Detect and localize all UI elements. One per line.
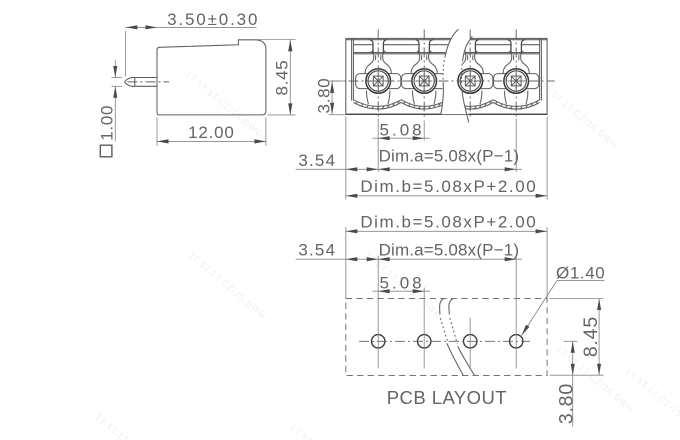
dim Dim.b (front view) [346, 195, 547, 197]
pcb rect extension lines up [345, 227, 347, 299]
dim 3.50±0.30 [124, 31, 126, 77]
extension line screw1 down [377, 119, 379, 173]
svg-text:Dim.a=5.08x(P−1): Dim.a=5.08x(P−1) [379, 146, 520, 165]
dim 8.45 (pcb) [550, 298, 604, 300]
pcb horizontal centerline [359, 340, 530, 342]
extension line screw2 down [423, 121, 425, 141]
screw rings [366, 69, 391, 94]
pcb outline (dashed) [346, 299, 547, 376]
svg-text:PCB LAYOUT: PCB LAYOUT [387, 387, 507, 408]
front view inner walls [351, 38, 353, 100]
dim 3.54 (front view) [296, 168, 373, 170]
svg-text:1T.5T.1T.CZ/25.DWG: 1T.5T.1T.CZ/25.DWG [539, 80, 621, 151]
svg-text:3.50±0.30: 3.50±0.30 [167, 10, 259, 29]
svg-text:8.45: 8.45 [272, 60, 291, 96]
dim 5.08 (front view) [373, 137, 431, 139]
extension line screw4 down [515, 119, 517, 173]
svg-text:Dim.a=5.08x(P−1): Dim.a=5.08x(P−1) [379, 240, 520, 259]
svg-text:5.08: 5.08 [380, 274, 425, 293]
dim 5.08 (pcb) [373, 290, 431, 292]
dim □1.00 (pin square) [112, 77, 123, 79]
svg-text:3.54: 3.54 [298, 151, 336, 170]
dim 3.80 (pcb) [564, 340, 578, 342]
pcb hole centerlines vertical [377, 256, 379, 369]
svg-text:1.00: 1.00 [98, 105, 117, 141]
break line left [441, 84, 444, 115]
svg-text:8.45: 8.45 [580, 316, 602, 357]
svg-text:Dim.b=5.08xP+2.00: Dim.b=5.08xP+2.00 [360, 177, 537, 196]
dim 3.80 (front view) [330, 80, 345, 82]
front view inner top edge [353, 52, 539, 54]
dim Dim.a (front view) [373, 168, 523, 170]
pcb break line left [440, 299, 444, 315]
dim Dim.a (pcb) [373, 258, 523, 260]
svg-text:5.08: 5.08 [380, 121, 425, 140]
svg-text:3.80: 3.80 [314, 78, 333, 114]
watermark [94, 69, 680, 440]
svg-text:12.00: 12.00 [188, 123, 235, 142]
break line right [462, 92, 469, 123]
svg-text:3.80: 3.80 [556, 383, 578, 424]
horizontal centerline (front view) [331, 80, 555, 82]
extension lines outer (front view) [345, 117, 347, 200]
pcb break line right [449, 299, 453, 315]
svg-text:1T.5T.1T.CZ/25.DWG: 1T.5T.1T.CZ/25.DWG [187, 250, 269, 321]
svg-text:3.54: 3.54 [298, 240, 336, 259]
vertical centerlines (screws) [377, 30, 379, 119]
svg-text:1T.5T.1T.CZ/25.DWG: 1T.5T.1T.CZ/25.DWG [289, 422, 371, 440]
wave hatch ticks [356, 101, 538, 109]
side view body [157, 40, 266, 115]
pcb holes [372, 335, 385, 348]
front view ledge line [353, 44, 372, 46]
dim 12.00 [156, 118, 158, 146]
svg-text:1T.5T.1T.CZ/25.DWG: 1T.5T.1T.CZ/25.DWG [94, 412, 176, 440]
dim ø1.40 leader [557, 280, 605, 282]
break gap (front view) [441, 29, 473, 114]
screw units [365, 54, 374, 74]
svg-text:1T.5T.1T.CZ/25.DWG: 1T.5T.1T.CZ/25.DWG [624, 366, 680, 437]
svg-text:Dim.b=5.08xP+2.00: Dim.b=5.08xP+2.00 [360, 212, 537, 231]
screw ring 3 redraw [458, 69, 483, 94]
dim 8.45 (side view) [258, 39, 296, 41]
pin centerline [128, 81, 170, 83]
front view outer housing [346, 38, 547, 114]
svg-text:Ø1.40: Ø1.40 [556, 264, 605, 283]
dim Dim.b (pcb) [346, 230, 547, 232]
pin (solder tail) [125, 78, 157, 82]
caps (wire slots) [369, 40, 373, 54]
dim 3.54 (pcb) [296, 258, 373, 260]
scalloped bottom wave [353, 100, 539, 107]
